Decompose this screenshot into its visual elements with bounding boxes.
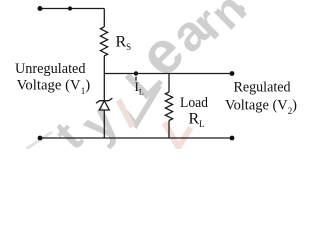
- svg-text:RL: RL: [189, 111, 205, 130]
- svg-text:Regulated: Regulated: [234, 79, 292, 95]
- svg-text:Voltage (V1): Voltage (V1): [17, 78, 91, 96]
- svg-text:Load: Load: [180, 95, 209, 111]
- svg-text:RS: RS: [116, 34, 132, 53]
- svg-text:Voltage (V2): Voltage (V2): [225, 98, 297, 116]
- svg-text:Unregulated: Unregulated: [15, 61, 86, 77]
